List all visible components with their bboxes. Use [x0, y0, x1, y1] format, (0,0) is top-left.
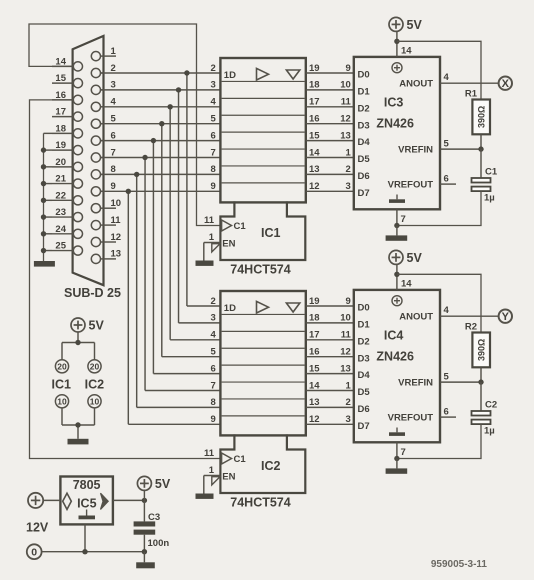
svg-text:15: 15 — [309, 130, 320, 141]
svg-text:14: 14 — [309, 380, 320, 391]
capacitor C3 100n — [134, 500, 170, 551]
wire IC3 pin 5 VREFIN — [440, 139, 481, 150]
svg-text:X: X — [502, 78, 510, 90]
IC1 input pin number labels — [211, 63, 217, 192]
svg-text:C3: C3 — [148, 512, 160, 523]
svg-text:6: 6 — [211, 363, 216, 374]
IC1 internal row dividers — [222, 81, 305, 182]
svg-text:5: 5 — [211, 347, 217, 358]
connector K1 pin 16 — [52, 90, 83, 105]
wire K1 pin 16 to IC2 clock C1 — [30, 100, 221, 459]
svg-text:20: 20 — [57, 361, 67, 371]
connector K1 pin 3 — [91, 80, 115, 95]
IC3 internal power circle — [392, 63, 402, 73]
wire IC5 ground stub — [84, 524, 86, 551]
connector K1 pin 21 — [52, 174, 83, 189]
svg-text:IC1: IC1 — [261, 226, 281, 240]
svg-text:C1: C1 — [485, 167, 498, 178]
connector K1 pin 5 — [91, 114, 116, 129]
wire C1 to ground node — [397, 191, 481, 226]
junction IC3 pin14 rail — [394, 39, 399, 44]
svg-text:13: 13 — [340, 363, 351, 374]
connector K1 pin 20 — [52, 157, 83, 172]
wire VREFIN junction to C2 — [480, 382, 482, 411]
svg-text:1µ: 1µ — [484, 192, 495, 203]
svg-text:1: 1 — [346, 147, 352, 158]
svg-text:ZN426: ZN426 — [376, 350, 414, 364]
svg-text:D7: D7 — [358, 421, 370, 432]
svg-text:D0: D0 — [358, 303, 370, 314]
ground symbol IC3 — [386, 226, 408, 241]
svg-text:4: 4 — [444, 305, 450, 316]
connector K1 pin 8 — [91, 164, 115, 179]
connector K1 pin 24 — [52, 224, 83, 239]
IC5 output arrow symbol — [101, 493, 109, 509]
svg-text:1D: 1D — [224, 303, 236, 314]
svg-text:1: 1 — [111, 46, 117, 57]
svg-text:2: 2 — [211, 296, 216, 307]
wire IC5 output to +5V node — [113, 499, 144, 501]
svg-text:2: 2 — [346, 397, 351, 408]
junction data bit 1 — [176, 87, 181, 92]
wire IC3 ANOUT to terminal X — [440, 72, 499, 83]
connector K1 pin 23 — [52, 207, 83, 222]
connector K1 pin 9 — [91, 181, 115, 196]
svg-text:VREFIN: VREFIN — [398, 145, 433, 156]
svg-text:7: 7 — [111, 147, 116, 158]
svg-text:19: 19 — [55, 140, 66, 151]
svg-text:5V: 5V — [407, 18, 423, 32]
svg-text:2: 2 — [111, 63, 116, 74]
wire data bit 3 : K1 pin 5 to IC1 pin 5 and IC2 pin 5 — [101, 124, 221, 357]
IC1 EN ground symbol — [196, 261, 214, 266]
wire IC1-IC3 bit 1 (18 to 10) — [306, 80, 354, 91]
wire IC1-IC3 bit 7 (12 to 3) — [306, 181, 354, 192]
svg-text:8: 8 — [111, 164, 116, 175]
svg-text:VREFOUT: VREFOUT — [388, 413, 434, 424]
svg-text:IC2: IC2 — [261, 459, 281, 473]
wire 0V line — [42, 551, 145, 553]
svg-text:4: 4 — [111, 97, 117, 108]
supply +5V latches — [71, 318, 85, 332]
wire K1 pin 14 to IC1 clock C1 — [29, 24, 220, 226]
wire +5V rail to R1 — [397, 41, 481, 99]
svg-text:10: 10 — [90, 396, 100, 406]
IC4 pin 7 wire — [397, 442, 406, 458]
svg-text:19: 19 — [309, 296, 320, 307]
svg-text:7: 7 — [401, 214, 406, 225]
wire R1 to VREFIN junction — [480, 134, 482, 149]
svg-text:10: 10 — [57, 396, 67, 406]
junction C3 ground — [142, 549, 147, 554]
connector K1 pin 17 — [52, 107, 83, 122]
connector K1 pin 12 — [91, 232, 121, 247]
svg-text:ANOUT: ANOUT — [399, 312, 433, 323]
junction dots ground bus — [41, 147, 46, 253]
wire IC1-IC3 bit 2 (17 to 11) — [306, 97, 354, 108]
svg-text:390Ω: 390Ω — [477, 339, 487, 361]
svg-text:VREFIN: VREFIN — [398, 378, 433, 389]
svg-text:74HCT574: 74HCT574 — [230, 496, 290, 510]
wire C2 to ground node — [397, 424, 481, 459]
svg-text:12: 12 — [340, 347, 351, 358]
svg-text:7: 7 — [211, 147, 216, 158]
svg-text:10: 10 — [111, 198, 122, 209]
svg-text:D3: D3 — [358, 120, 370, 131]
svg-text:R1: R1 — [465, 88, 478, 99]
junction data bit 2 — [167, 104, 172, 109]
wire +5V rail to R2 — [397, 274, 481, 332]
svg-text:12V: 12V — [26, 521, 49, 535]
connector K1 pin 11 — [91, 215, 121, 230]
svg-text:10: 10 — [340, 313, 351, 324]
IC4 ZN426 box — [354, 290, 440, 442]
svg-text:16: 16 — [309, 114, 320, 125]
svg-text:IC5: IC5 — [77, 497, 97, 511]
wire IC1-IC3 bit 5 (14 to 1) — [306, 147, 354, 158]
IC3 labels D0-D7 — [358, 70, 371, 199]
wire latch ground pins — [62, 408, 95, 439]
svg-text:ANOUT: ANOUT — [399, 79, 433, 90]
junction IC5 ground — [82, 549, 87, 554]
wire data bit 5 : K1 pin 7 to IC1 pin 7 and IC2 pin 7 — [101, 158, 221, 391]
svg-text:7: 7 — [211, 380, 216, 391]
svg-text:4: 4 — [444, 72, 450, 83]
svg-text:21: 21 — [55, 174, 66, 185]
wire IC1-IC3 bit 4 (15 to 13) — [306, 130, 354, 141]
svg-text:D5: D5 — [358, 387, 371, 398]
svg-text:11: 11 — [341, 330, 352, 341]
wire data bit 1 : K1 pin 3 to IC1 pin 3 and IC2 pin 3 — [101, 90, 221, 323]
svg-text:4: 4 — [211, 97, 217, 108]
wire IC4 ANOUT to terminal Y — [440, 305, 499, 316]
IC4 internal ground symbol — [389, 428, 405, 436]
svg-text:1D: 1D — [224, 70, 236, 81]
wire IC1-IC3 bit 6 (13 to 2) — [306, 164, 354, 175]
svg-text:12: 12 — [340, 114, 351, 125]
wire IC2-IC4 bit 2 (17 to 11) — [306, 330, 354, 341]
connector K1 pin 6 — [91, 130, 115, 145]
IC1 EN wire and ground — [204, 243, 221, 261]
svg-text:1µ: 1µ — [484, 425, 495, 436]
svg-text:9: 9 — [211, 181, 216, 192]
svg-text:D2: D2 — [358, 103, 370, 114]
connector K1 pin 14 — [52, 56, 83, 71]
svg-text:24: 24 — [55, 224, 66, 235]
svg-text:5V: 5V — [155, 477, 171, 491]
wire ground bus pins 18-25 — [44, 133, 53, 261]
svg-text:C1: C1 — [234, 454, 247, 465]
svg-text:0: 0 — [31, 547, 37, 559]
svg-text:IC2: IC2 — [85, 378, 105, 392]
IC4 pin 14 wire — [397, 264, 412, 290]
IC2 pin 10 ground pin — [88, 395, 101, 408]
IC2 EN active-low triangle — [212, 477, 220, 485]
svg-text:C1: C1 — [234, 221, 247, 232]
IC4 internal power circle — [392, 296, 402, 306]
svg-text:15: 15 — [309, 363, 320, 374]
svg-text:11: 11 — [204, 448, 215, 459]
wire IC2-IC4 bit 4 (15 to 13) — [306, 363, 354, 374]
svg-text:18: 18 — [309, 80, 320, 91]
terminal +12V input — [26, 493, 49, 535]
IC1 clock input triangle — [222, 220, 232, 231]
wire data bit 7 : K1 pin 9 to IC1 pin 9 and IC2 pin 9 — [101, 191, 221, 424]
svg-text:14: 14 — [401, 46, 412, 57]
junction data bit 3 — [159, 121, 164, 126]
connector K1 pin 1 — [91, 46, 116, 61]
svg-text:9: 9 — [111, 181, 116, 192]
IC4 pin 6 VREFOUT stub — [440, 407, 456, 418]
supply +5V IC3 — [389, 17, 403, 31]
junction latch ground — [75, 422, 80, 427]
svg-text:17: 17 — [309, 330, 320, 341]
wire R2 to VREFIN junction — [480, 367, 482, 382]
svg-text:15: 15 — [55, 73, 66, 84]
svg-text:20: 20 — [90, 361, 100, 371]
junction data bit 6 — [134, 172, 139, 177]
svg-text:6: 6 — [211, 130, 216, 141]
IC2 internal row dividers — [222, 314, 305, 415]
IC1 pin 20 power pin — [55, 360, 68, 373]
svg-text:7805: 7805 — [73, 478, 101, 492]
wire IC2-IC4 bit 0 (19 to 9) — [306, 296, 354, 307]
wire 12V to IC5 — [43, 499, 60, 501]
svg-text:3: 3 — [346, 181, 351, 192]
connector K1 pin 15 — [52, 73, 83, 88]
svg-text:IC3: IC3 — [384, 96, 404, 110]
svg-text:D5: D5 — [358, 154, 371, 165]
terminal X output — [499, 77, 512, 91]
IC2 nabla symbol — [286, 303, 299, 312]
svg-text:EN: EN — [222, 239, 235, 250]
svg-text:D6: D6 — [358, 171, 370, 182]
svg-text:1: 1 — [209, 465, 215, 476]
svg-text:8: 8 — [211, 397, 216, 408]
svg-text:D1: D1 — [358, 87, 371, 98]
svg-text:3: 3 — [346, 414, 351, 425]
connector K1 pin 13 — [91, 249, 121, 264]
junction data bit 4 — [151, 138, 156, 143]
svg-text:5: 5 — [444, 139, 450, 150]
svg-text:IC4: IC4 — [384, 329, 404, 343]
svg-text:7: 7 — [401, 447, 406, 458]
IC2 clock triangle symbol — [257, 301, 269, 313]
resistor R2 390R — [465, 321, 490, 367]
svg-text:6: 6 — [444, 174, 449, 185]
ground symbol IC4 — [386, 459, 408, 474]
svg-text:12: 12 — [309, 414, 320, 425]
IC5 internal ground symbol — [79, 510, 96, 520]
svg-text:17: 17 — [55, 107, 66, 118]
svg-text:10: 10 — [340, 80, 351, 91]
svg-text:5: 5 — [444, 372, 450, 383]
connector K1 pin 2 — [91, 63, 115, 78]
svg-text:16: 16 — [309, 347, 320, 358]
junction IC5 output — [142, 498, 147, 503]
wire data bit 0 : K1 pin 2 to IC1 pin 2 and IC2 pin 2 — [101, 73, 221, 306]
svg-text:13: 13 — [340, 130, 351, 141]
svg-text:12: 12 — [111, 232, 122, 243]
svg-text:EN: EN — [222, 472, 235, 483]
svg-text:2: 2 — [211, 63, 216, 74]
IC1 nabla symbol — [286, 70, 299, 79]
connector K1 pin 22 — [52, 190, 83, 205]
IC5 input arrow symbol — [63, 493, 72, 509]
wire VREFIN junction to C1 — [480, 149, 482, 178]
wire +5V to latch power pins — [62, 332, 95, 360]
svg-text:D7: D7 — [358, 188, 370, 199]
svg-text:5V: 5V — [407, 251, 423, 265]
svg-text:13: 13 — [309, 397, 320, 408]
wire IC2-IC4 bit 6 (13 to 2) — [306, 397, 354, 408]
junction VREFIN-C2 — [478, 379, 483, 384]
IC3 internal ground symbol — [389, 195, 405, 203]
svg-text:9: 9 — [346, 296, 351, 307]
resistor R1 390R — [465, 88, 490, 134]
svg-text:3: 3 — [211, 80, 216, 91]
wire IC1-IC3 bit 0 (19 to 9) — [306, 63, 354, 74]
connector K1 pin 7 — [91, 147, 115, 162]
IC2 pin 20 power pin — [88, 360, 101, 373]
IC2 clock input triangle — [222, 453, 232, 464]
svg-text:14: 14 — [309, 147, 320, 158]
svg-text:5V: 5V — [89, 319, 105, 333]
svg-text:D1: D1 — [358, 320, 371, 331]
svg-text:18: 18 — [309, 313, 320, 324]
junction IC4 pin14 rail — [394, 272, 399, 277]
connector K1 SUB-D 25 body — [73, 36, 104, 285]
capacitor C2 1u — [472, 400, 498, 437]
svg-text:9: 9 — [211, 414, 216, 425]
svg-text:5: 5 — [211, 114, 217, 125]
wire IC2-IC4 bit 1 (18 to 10) — [306, 313, 354, 324]
ground symbol latch power block — [68, 439, 89, 445]
junction data bit 5 — [142, 155, 147, 160]
svg-text:5: 5 — [111, 114, 117, 125]
regulator IC5 7805 box — [60, 477, 113, 525]
svg-text:4: 4 — [211, 330, 217, 341]
svg-text:14: 14 — [401, 279, 412, 290]
svg-text:IC1: IC1 — [51, 378, 71, 392]
svg-text:11: 11 — [111, 215, 122, 226]
svg-text:18: 18 — [55, 123, 66, 134]
terminal Y output — [499, 310, 512, 324]
svg-text:12: 12 — [309, 181, 320, 192]
IC2 EN wire and ground — [204, 476, 221, 494]
IC1 clock triangle symbol — [257, 68, 269, 80]
junction VREFIN-C1 — [478, 146, 483, 151]
IC2 EN ground symbol — [196, 494, 214, 499]
svg-text:74HCT574: 74HCT574 — [230, 263, 290, 277]
svg-text:C2: C2 — [485, 400, 497, 411]
IC1 pin 10 ground pin — [55, 395, 68, 408]
wire IC1-IC3 bit 3 (16 to 12) — [306, 114, 354, 125]
svg-text:959005-3-11: 959005-3-11 — [431, 559, 488, 570]
supply +5V IC4 — [389, 250, 403, 264]
svg-text:25: 25 — [55, 241, 66, 252]
IC1 EN active-low triangle — [212, 244, 220, 252]
svg-text:3: 3 — [111, 80, 116, 91]
connector K1 pin 25 — [52, 241, 83, 256]
svg-text:2: 2 — [346, 164, 351, 175]
connector K1 pin 18 — [52, 123, 83, 138]
svg-text:13: 13 — [309, 164, 320, 175]
terminal 0V — [27, 544, 42, 559]
svg-text:11: 11 — [341, 97, 352, 108]
svg-text:D0: D0 — [358, 70, 370, 81]
supply +5V regulator output — [137, 476, 170, 500]
junction latch power top — [75, 340, 80, 345]
svg-text:11: 11 — [204, 215, 215, 226]
wire data bit 6 : K1 pin 8 to IC1 pin 8 and IC2 pin 8 — [101, 174, 221, 407]
svg-text:9: 9 — [346, 63, 351, 74]
wire IC4 pin 5 VREFIN — [440, 372, 481, 383]
svg-text:VREFOUT: VREFOUT — [388, 180, 434, 191]
IC3 ZN426 box — [354, 57, 440, 209]
svg-text:D4: D4 — [358, 370, 371, 381]
wire data bit 4 : K1 pin 6 to IC1 pin 6 and IC2 pin 6 — [101, 141, 221, 374]
junction IC3 pin 7 — [394, 223, 399, 228]
svg-text:13: 13 — [111, 249, 122, 260]
svg-text:6: 6 — [444, 407, 449, 418]
svg-text:D4: D4 — [358, 137, 371, 148]
IC3 pin 6 VREFOUT stub — [440, 174, 456, 185]
svg-text:ZN426: ZN426 — [376, 117, 414, 131]
svg-text:D3: D3 — [358, 353, 370, 364]
connector K1 pin 19 — [52, 140, 83, 155]
IC3 pin 7 wire — [397, 209, 406, 225]
IC3 pin 14 wire — [397, 31, 412, 57]
junction data bit 0 — [184, 70, 189, 75]
connector K1 pin 4 — [91, 97, 116, 112]
svg-text:8: 8 — [211, 164, 216, 175]
svg-text:SUB-D 25: SUB-D 25 — [64, 286, 121, 300]
svg-text:390Ω: 390Ω — [477, 106, 487, 128]
wire data bit 2 : K1 pin 4 to IC1 pin 4 and IC2 pin 4 — [101, 107, 221, 340]
svg-text:100n: 100n — [148, 538, 170, 549]
svg-text:22: 22 — [55, 190, 66, 201]
svg-text:3: 3 — [211, 313, 216, 324]
svg-text:D6: D6 — [358, 404, 370, 415]
IC2 74HCT574 main box — [220, 291, 305, 435]
svg-text:1: 1 — [346, 380, 352, 391]
svg-text:23: 23 — [55, 207, 66, 218]
svg-text:R2: R2 — [465, 321, 477, 332]
svg-text:6: 6 — [111, 130, 116, 141]
IC2 sub box C1/EN — [220, 434, 305, 493]
svg-text:D2: D2 — [358, 336, 370, 347]
ground symbol connector bus — [34, 261, 55, 267]
wire IC2-IC4 bit 7 (12 to 3) — [306, 414, 354, 425]
IC2 input pin number labels — [211, 296, 217, 425]
wire IC2-IC4 bit 5 (14 to 1) — [306, 380, 354, 391]
svg-text:Y: Y — [502, 311, 510, 323]
svg-text:20: 20 — [55, 157, 66, 168]
connector K1 pin 10 — [91, 198, 121, 213]
svg-text:1: 1 — [209, 232, 215, 243]
junction IC4 pin 7 — [394, 456, 399, 461]
IC1 74HCT574 main box — [220, 58, 305, 202]
wire IC2-IC4 bit 3 (16 to 12) — [306, 347, 354, 358]
svg-text:17: 17 — [309, 97, 320, 108]
capacitor C1 1u — [472, 167, 498, 204]
svg-text:19: 19 — [309, 63, 320, 74]
junction data bit 7 — [126, 189, 131, 194]
IC4 labels D0-D7 — [358, 303, 371, 432]
ground symbol C3 — [136, 552, 155, 569]
IC1 sub box C1/EN — [220, 201, 305, 260]
